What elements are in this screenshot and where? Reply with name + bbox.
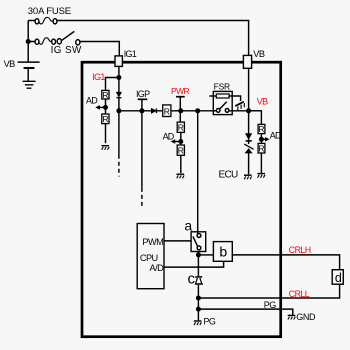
ground PWR divider (177, 174, 185, 178)
junction dot IG1 branch (116, 75, 121, 80)
wire IG1 drop (118, 66, 120, 92)
wire R1 to R2 (105, 99, 107, 114)
wire zener to ground (248, 140, 250, 175)
ground relay coil slanted (235, 102, 246, 111)
fuse 30A FUSE (35, 17, 57, 24)
svg-text:IG1: IG1 (124, 49, 137, 59)
wire battery feed vertical (27, 21, 29, 63)
resistor R6 (258, 124, 265, 133)
svg-text:CRLH: CRLH (289, 245, 311, 255)
svg-text:d: d (335, 271, 342, 285)
junction dot transistor drop (195, 108, 200, 113)
ECU border (82, 62, 281, 337)
svg-text:R: R (258, 143, 264, 153)
svg-text:a: a (184, 217, 192, 233)
svg-text:R: R (102, 90, 108, 100)
svg-text:PWR: PWR (171, 86, 189, 96)
junction dot AD tap right (259, 137, 264, 142)
terminal VB box (243, 55, 251, 68)
svg-text:PWM: PWM (142, 237, 163, 247)
wire CRLH (232, 255, 339, 270)
ground right divider (257, 174, 265, 178)
ground battery earth (23, 81, 36, 88)
relay switch contacts (216, 102, 229, 113)
svg-text:FSR: FSR (214, 81, 230, 91)
svg-text:CRLL: CRLL (289, 289, 310, 299)
wire IG1 dashed continuation (118, 155, 120, 177)
arrow AD PWR left (171, 139, 181, 144)
relay FSR box (213, 91, 232, 114)
wire R2 to ground (105, 124, 107, 144)
junction dot CRLL (196, 296, 201, 301)
wire R7 to ground (260, 153, 262, 173)
svg-text:IG1: IG1 (92, 72, 105, 82)
wire right divider branch (249, 111, 262, 125)
svg-text:b: b (219, 243, 227, 259)
diode c (195, 277, 203, 284)
arrow AD right (261, 137, 269, 142)
transistor a switch (193, 234, 201, 250)
wire branch to left divider (106, 78, 119, 91)
ground GND (288, 315, 296, 319)
svg-text:GND: GND (296, 312, 316, 322)
junction dot emitter (196, 252, 201, 257)
wire PG (198, 309, 292, 315)
resistor R7 (258, 143, 265, 153)
wire R4 to R5 (180, 132, 182, 145)
svg-text:ECU: ECU (219, 170, 238, 181)
wire IG SW row (28, 42, 119, 56)
battery VB (18, 62, 40, 81)
svg-text:AD: AD (270, 130, 282, 140)
ground left divider (102, 146, 110, 150)
wire PWR stub (179, 97, 181, 122)
svg-text:c: c (188, 270, 196, 287)
svg-text:VB: VB (253, 49, 265, 59)
junction dot IGP rail (139, 108, 144, 113)
wire a emitter (197, 252, 199, 277)
block d box (332, 270, 343, 285)
svg-text:PG: PG (264, 300, 277, 310)
block CPU box (137, 224, 164, 289)
block b box (213, 242, 232, 262)
wire transistor drop (197, 111, 199, 234)
wire rail inside relay (213, 110, 216, 112)
wire R5 to ground (180, 155, 182, 173)
svg-text:VB: VB (4, 59, 16, 69)
relay coil (216, 94, 229, 98)
resistor R1 (102, 90, 109, 99)
wire IGP dashed continuation (141, 188, 143, 209)
diode protection down (246, 134, 252, 141)
svg-text:PG: PG (203, 316, 216, 326)
terminal tick PWR (176, 96, 185, 98)
svg-text:R: R (178, 146, 184, 156)
fuse IG row (35, 38, 55, 45)
svg-text:AD: AD (163, 131, 175, 141)
svg-text:VB: VB (257, 97, 268, 107)
svg-text:R: R (258, 124, 264, 134)
junction dot PWR rail (178, 108, 183, 113)
diode D1 on IG1 line (117, 92, 122, 97)
svg-text:A/D: A/D (150, 263, 165, 273)
ground PG bottom (194, 321, 202, 325)
wire VB drop (248, 68, 250, 134)
junction dot battery node (26, 39, 31, 44)
wire main rail (119, 110, 262, 112)
junction dot PG (196, 307, 201, 312)
resistor R2 (102, 114, 109, 124)
zener slant bar (244, 144, 253, 149)
junction dot VB rail (246, 108, 251, 113)
wire emitter to bottom (197, 285, 199, 321)
svg-text:CPU: CPU (140, 253, 158, 263)
wire top fuse row (28, 21, 248, 56)
wire to b (198, 254, 213, 256)
svg-text:IGP: IGP (136, 89, 150, 99)
junction dot AD tap left (103, 105, 108, 110)
wire CRLL (198, 284, 339, 298)
wire coil to ground (229, 96, 241, 101)
arrow AD left (95, 105, 105, 110)
junction dot AD tap PWR (178, 139, 183, 144)
ground protection (244, 175, 252, 179)
wire IGP stub and drop (141, 100, 143, 188)
resistor R4 (177, 122, 184, 132)
wire PWM to a (164, 240, 191, 242)
terminal tick IGP (138, 98, 148, 100)
wire A/D sense (164, 261, 224, 267)
svg-text:R: R (164, 106, 170, 116)
svg-text:30A FUSE: 30A FUSE (28, 6, 71, 17)
wire IG1 to rail (118, 98, 120, 155)
junction dot IG1 rail (116, 108, 121, 113)
svg-text:AD: AD (86, 95, 98, 105)
wire coil left stub (209, 95, 216, 97)
resistor R5 (177, 145, 184, 155)
svg-text:R: R (102, 114, 108, 124)
diode zener up (245, 149, 251, 153)
terminal IG1 box (115, 56, 122, 67)
resistor R3 on rail (163, 105, 171, 117)
switch IG SW (57, 31, 80, 45)
wire R6 to R7 (260, 134, 262, 144)
diode D2 on rail (151, 109, 156, 114)
svg-text:IG SW: IG SW (51, 45, 82, 56)
svg-text:R: R (178, 123, 184, 133)
transistor a box (191, 232, 206, 252)
